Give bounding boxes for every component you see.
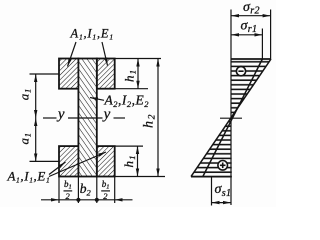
svg-text:A1,I1,E1: A1,I1,E1 <box>70 27 114 42</box>
svg-text:b1: b1 <box>64 179 72 191</box>
svg-text:σr1: σr1 <box>241 19 258 36</box>
svg-text:2: 2 <box>103 191 108 201</box>
svg-text:b1: b1 <box>102 179 110 191</box>
svg-text:y: y <box>102 107 111 123</box>
svg-text:h1: h1 <box>122 69 138 82</box>
svg-text:A1,I1,E1: A1,I1,E1 <box>7 169 51 185</box>
svg-text:a1: a1 <box>17 88 33 100</box>
svg-text:h1: h1 <box>121 154 137 167</box>
svg-text:a1: a1 <box>17 132 33 144</box>
svg-text:b2: b2 <box>80 181 92 198</box>
svg-text:A2,I2,E2: A2,I2,E2 <box>104 93 150 110</box>
svg-text:h2: h2 <box>141 113 157 128</box>
svg-text:y: y <box>56 107 65 123</box>
svg-text:σr2: σr2 <box>243 0 260 17</box>
svg-text:σs1: σs1 <box>215 182 232 199</box>
